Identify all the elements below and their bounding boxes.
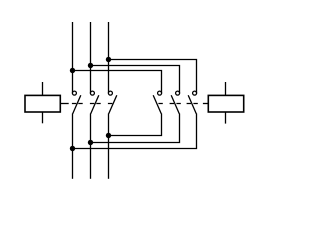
contactor K1 pole 2 blade [91,95,99,114]
contactor K2 pole 3 fixed contact circle [193,91,197,95]
coil K2 actuator dashed linkage [158,103,197,105]
coil K2 bottom terminal [225,112,227,124]
wire K2 pole 2 crossover to L2 [91,114,180,143]
wire branch L3 to K2 pole 3 top [109,60,197,94]
wire L3 lower vertical [108,114,110,179]
contactor K1 pole 1 fixed contact circle [72,91,76,95]
node junction crossover L3 [106,133,111,138]
node junction L1 branch [70,68,75,73]
coil K1 top terminal [42,82,44,95]
contactor K2 pole 1 fixed contact circle [158,91,162,95]
contactor K1 pole 3 fixed contact circle [108,91,112,95]
wire branch L1 to K2 pole 1 top [73,71,162,94]
node junction L3 branch [106,57,111,62]
node junction crossover L1 [70,146,75,151]
wire L1 lower vertical [72,114,74,179]
coil K1 actuator link solid segment [60,103,68,105]
contactor K1 pole 3 blade [109,95,117,114]
wire K2 pole 1 crossover to L3 [109,114,162,136]
contactor K1 pole 1 blade [73,95,81,114]
wire phase L3 upper vertical [108,22,110,93]
node junction crossover L2 [88,140,93,145]
coil K2 top terminal [225,82,227,95]
wire K2 pole 3 crossover to L1 [73,114,197,149]
coil K2 actuator link solid segment [203,103,208,105]
coil K2 [208,95,243,112]
contactor K2 pole 1 blade [153,95,161,114]
wire L2 lower vertical [90,114,92,179]
coil K1 bottom terminal [42,112,44,123]
wire phase L2 upper vertical [90,22,92,93]
wire branch L2 to K2 pole 2 top [91,66,180,94]
coil K1 actuator dashed linkage [72,103,112,105]
contactor K2 pole 3 blade [188,95,196,114]
node junction L2 branch [88,63,93,68]
contactor K1 pole 2 fixed contact circle [90,91,94,95]
wire phase L1 upper vertical [72,22,74,93]
coil K1 [25,95,60,112]
contactor K2 pole 2 blade [171,95,179,114]
contactor K2 pole 2 fixed contact circle [176,91,180,95]
